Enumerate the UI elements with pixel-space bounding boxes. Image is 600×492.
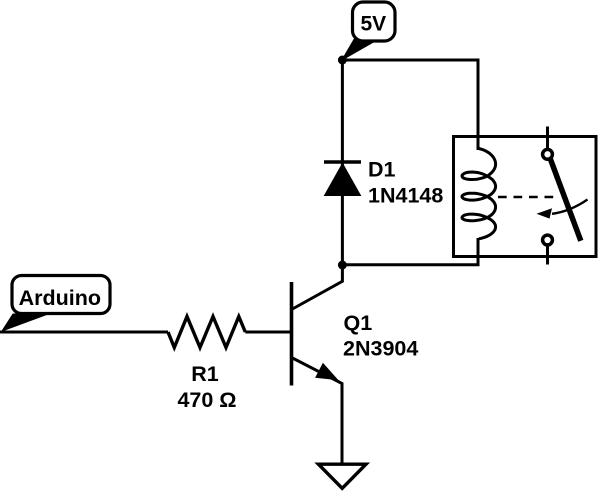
relay actuation dashed line <box>498 196 553 199</box>
svg-text:D1: D1 <box>368 158 396 182</box>
svg-text:1N4148: 1N4148 <box>368 184 443 208</box>
svg-text:Q1: Q1 <box>344 311 373 335</box>
wire collector node to relay coil bottom <box>342 238 478 265</box>
transistor Q1 emitter arrowhead <box>315 363 338 381</box>
relay switch bottom contact stub <box>546 246 549 264</box>
diode D1 triangle <box>325 164 361 196</box>
relay switch bottom contact <box>543 235 553 245</box>
svg-text:5V: 5V <box>360 12 386 35</box>
wire top rail to relay coil <box>342 60 478 150</box>
svg-text:2N3904: 2N3904 <box>343 336 418 360</box>
svg-text:R1: R1 <box>191 362 219 386</box>
diode D1 cathode bar <box>324 160 361 164</box>
wire resistor to base <box>245 331 290 334</box>
ground <box>318 464 366 488</box>
wire from Arduino pin to resistor <box>0 331 168 334</box>
power flag 5V pointer <box>342 39 374 61</box>
node top junction <box>338 56 347 65</box>
relay switch top contact stub <box>546 127 549 149</box>
transistor Q1 collector lead <box>292 265 343 310</box>
node collector junction <box>338 261 347 270</box>
power flag 5V box <box>353 2 396 41</box>
svg-text:Arduino: Arduino <box>19 286 101 310</box>
relay coil <box>462 149 496 239</box>
relay switch motion arrowhead <box>537 208 553 218</box>
svg-text:470 Ω: 470 Ω <box>177 388 236 412</box>
relay switch top contact <box>543 149 553 159</box>
relay switch blade <box>550 159 581 241</box>
resistor R1 <box>168 317 245 348</box>
net flag Arduino box <box>12 276 110 314</box>
relay box K1 <box>454 137 597 257</box>
relay switch motion arrow arc <box>552 200 588 214</box>
net flag Arduino pointer <box>2 314 48 331</box>
transistor Q1 base bar <box>290 282 294 386</box>
wire 5V rail down through diode to collector node <box>341 60 344 265</box>
transistor Q1 emitter lead <box>292 358 343 465</box>
